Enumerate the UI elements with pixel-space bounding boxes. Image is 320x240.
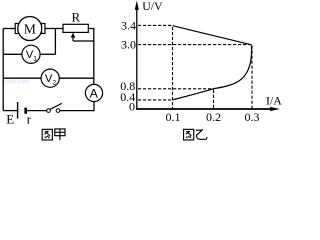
- svg-text:0: 0: [129, 100, 135, 114]
- rheostat R box: [63, 24, 88, 32]
- switch contact left: [47, 109, 51, 113]
- caption 图乙 glyph 图: [184, 129, 194, 140]
- x-axis: [136, 108, 272, 110]
- source terminal-voltage line: [173, 26, 252, 45]
- wire bottom left: [3, 110, 17, 112]
- svg-text:0.2: 0.2: [206, 110, 221, 124]
- wire left vertical outer: [2, 29, 4, 111]
- svg-text:zxxk.com: zxxk.com: [4, 80, 29, 86]
- svg-text:0.1: 0.1: [166, 110, 181, 124]
- motor U-I curve: [173, 45, 252, 100]
- wire V2 right: [59, 77, 94, 79]
- svg-text:1: 1: [33, 56, 37, 63]
- wire top left: [3, 28, 15, 30]
- dashed line U=3.4: [138, 24, 173, 26]
- voltmeter V2: [41, 69, 59, 87]
- dashed line U=0.4: [138, 99, 173, 101]
- svg-text:U/V: U/V: [142, 0, 163, 13]
- svg-text:r: r: [27, 112, 32, 127]
- dashed line I=0.2: [213, 90, 215, 109]
- svg-text:R: R: [71, 10, 80, 25]
- wire R right to down: [88, 29, 94, 85]
- wire V1 left: [3, 53, 22, 55]
- wire A bottom: [60, 102, 94, 111]
- wire M to R: [45, 28, 63, 30]
- wire wiper return: [73, 40, 94, 42]
- svg-text:E: E: [6, 112, 14, 127]
- motor M terminal block left: [15, 24, 18, 34]
- motor M terminal block right: [42, 24, 45, 34]
- switch contact right: [56, 109, 60, 113]
- svg-text:M: M: [24, 21, 36, 36]
- svg-text:3.4: 3.4: [121, 18, 136, 32]
- svg-text:2: 2: [52, 80, 56, 87]
- dashed line U=3.0: [138, 44, 250, 46]
- wire battery to switch: [27, 110, 47, 112]
- battery E long plate: [17, 102, 19, 119]
- rheostat wiper arrow: [72, 36, 74, 41]
- battery E short plate: [24, 108, 27, 114]
- y-axis: [136, 6, 138, 110]
- caption 图甲 glyph 图: [42, 129, 52, 140]
- ammeter A: [85, 84, 102, 101]
- svg-text:A: A: [90, 86, 99, 100]
- voltmeter V1: [22, 45, 40, 63]
- wire V1 right: [40, 53, 55, 55]
- svg-text:3.0: 3.0: [121, 38, 136, 52]
- dashed line U=0.8: [138, 88, 214, 90]
- svg-text:0.3: 0.3: [245, 110, 260, 124]
- caption 图甲 glyph 甲: [55, 129, 65, 140]
- switch lever: [50, 103, 62, 109]
- svg-text:I/A: I/A: [266, 93, 282, 107]
- dashed line I=0.1: [172, 27, 174, 109]
- dashed line I=0.3: [251, 46, 253, 109]
- motor M circle U1: [18, 17, 42, 41]
- caption 图乙 glyph 乙: [196, 129, 207, 139]
- wire junction down to V1: [54, 29, 56, 55]
- wire V2 left: [3, 77, 41, 79]
